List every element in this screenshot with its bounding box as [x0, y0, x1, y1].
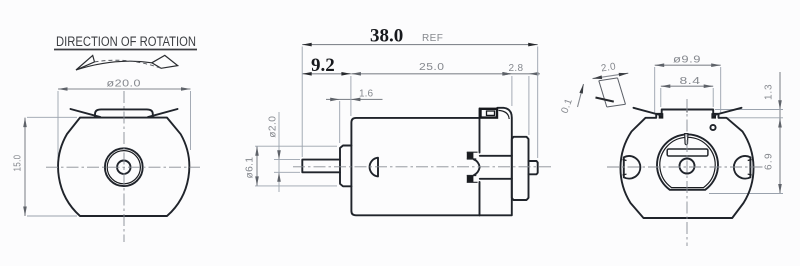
side view bearing retainer top tab	[467, 152, 474, 159]
side view endcap outline	[480, 108, 512, 216]
side view brush boss top line	[480, 155, 512, 157]
svg-text:1.6: 1.6	[359, 89, 374, 100]
extension line endcap right	[511, 76, 513, 106]
side view can body	[351, 118, 479, 215]
rear view vent slot	[667, 149, 708, 156]
terminal detail square side 1	[599, 81, 607, 107]
rear view boss inner	[660, 137, 715, 187]
svg-text:2.0: 2.0	[600, 61, 617, 74]
side view bearing funnel	[474, 159, 480, 175]
front view horizontal centerline	[46, 166, 200, 168]
rear view body outline	[620, 110, 753, 219]
front view shaft circle	[117, 161, 130, 174]
extension line rear stub tip	[537, 47, 539, 159]
side view washer	[512, 137, 529, 200]
rear view plateau center seam	[686, 110, 688, 113]
rear view horizontal centerline	[607, 166, 764, 168]
front view body outline	[58, 118, 189, 216]
front view left whisker	[71, 109, 101, 117]
side view terminal	[481, 109, 498, 118]
rear view left ear	[624, 156, 641, 179]
side view vent bump	[370, 158, 378, 177]
rear view left hook tab	[659, 113, 664, 118]
svg-text:0.1: 0.1	[559, 97, 575, 115]
dimension 25.0	[351, 62, 512, 76]
terminal detail dimension 2.0	[592, 61, 628, 80]
svg-text:ø20.0: ø20.0	[107, 79, 142, 90]
terminal detail thick edge	[596, 98, 614, 102]
rear view right hook tab	[711, 113, 716, 118]
svg-text:ø2.0: ø2.0	[268, 116, 279, 138]
side view endcap boundary upper	[479, 109, 481, 153]
svg-text:2.8: 2.8	[509, 63, 524, 74]
rear view right ear	[734, 156, 751, 179]
svg-text:1.3: 1.3	[764, 84, 775, 100]
front view cap plateau	[95, 109, 153, 117]
dimension 2.8	[503, 63, 540, 76]
dimension 8.4	[661, 76, 713, 107]
front view bearing boss outer circle	[105, 148, 143, 186]
side view rear stub shaft	[529, 161, 538, 174]
terminal detail square side 2	[618, 78, 626, 104]
side view endcap corner inner arc	[499, 110, 510, 119]
svg-text:DIRECTION OF ROTATION: DIRECTION OF ROTATION	[56, 34, 196, 49]
svg-text:9.2: 9.2	[311, 55, 335, 76]
svg-text:8.4: 8.4	[680, 76, 701, 87]
dimension ø6.1 (bushing)	[245, 146, 338, 186]
svg-text:ø6.1: ø6.1	[245, 156, 256, 178]
extension line shaft tip	[301, 47, 303, 158]
rear view vent hole	[710, 125, 715, 130]
svg-text:15.0: 15.0	[13, 154, 24, 171]
front view bearing boss inner circle	[107, 151, 140, 184]
side view endcap boundary lower	[479, 182, 481, 215]
dimension ø20.0 (front view width)	[58, 79, 191, 159]
svg-text:38.0: 38.0	[370, 26, 403, 47]
dimension 15.0 (front view height)	[13, 117, 78, 216]
svg-text:ø9.9: ø9.9	[673, 55, 701, 66]
rear view vertical centerline	[686, 99, 688, 246]
side view brush boss bottom line	[480, 178, 512, 180]
rear view boss top slit	[685, 134, 688, 145]
svg-text:6.9: 6.9	[764, 153, 775, 170]
rotation direction symbol	[76, 55, 178, 70]
side view centerline	[293, 166, 553, 168]
side view bushing	[340, 146, 351, 187]
terminal detail square top	[599, 78, 618, 81]
dimension 1.3	[715, 72, 783, 130]
dimension ø2.0 (shaft)	[268, 112, 301, 192]
svg-text:25.0: 25.0	[419, 62, 445, 73]
rear view left whisker	[634, 108, 663, 116]
extension line can front face	[350, 76, 352, 116]
front view right whisker	[148, 109, 178, 117]
rear view right whisker	[713, 108, 742, 116]
dimension 38.0 REF	[302, 26, 538, 47]
dimension 9.2	[302, 55, 351, 76]
extension line washer right	[528, 76, 530, 135]
rear view boss outer	[657, 134, 718, 189]
dimension 1.6	[326, 89, 383, 144]
svg-text:REF: REF	[422, 33, 443, 44]
terminal detail square bottom	[607, 104, 626, 107]
front view vertical centerline	[123, 91, 125, 242]
side view shaft	[302, 160, 340, 173]
title DIRECTION OF ROTATION	[54, 34, 197, 50]
side view bearing retainer bottom tab	[467, 175, 474, 182]
terminal detail dimension 0.1	[559, 84, 585, 115]
dimension ø9.9 (rear cap)	[655, 55, 721, 115]
dimension 6.9	[709, 130, 783, 194]
rear view shaft circle	[680, 159, 695, 174]
